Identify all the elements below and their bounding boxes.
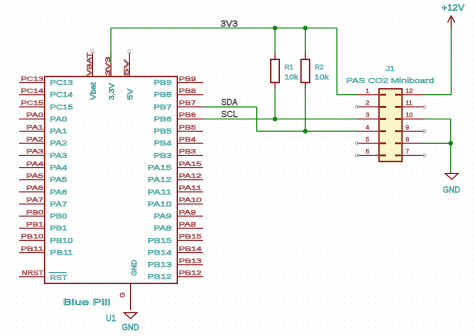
- svg-text:PA11: PA11: [147, 187, 171, 196]
- svg-text:PB11: PB11: [21, 246, 44, 253]
- svg-text:PA9: PA9: [179, 209, 197, 216]
- svg-text:J1: J1: [386, 64, 395, 73]
- svg-text:3V3: 3V3: [221, 18, 238, 28]
- svg-text:4: 4: [366, 124, 370, 131]
- svg-text:PB3: PB3: [154, 151, 172, 160]
- svg-text:8: 8: [406, 137, 410, 144]
- svg-text:PC14: PC14: [50, 90, 73, 99]
- svg-text:PAS CO2 Miniboard: PAS CO2 Miniboard: [346, 76, 434, 85]
- svg-text:PC15: PC15: [50, 102, 73, 111]
- svg-text:PA9: PA9: [154, 212, 172, 221]
- svg-text:RST: RST: [50, 273, 68, 282]
- svg-text:GND: GND: [122, 323, 140, 332]
- svg-text:PA10: PA10: [147, 199, 171, 208]
- svg-text:PA11: PA11: [179, 185, 202, 192]
- svg-text:PC15: PC15: [21, 100, 44, 107]
- svg-text:PB12: PB12: [147, 272, 171, 281]
- svg-text:PA3: PA3: [50, 151, 67, 160]
- svg-text:PB0: PB0: [50, 212, 67, 221]
- svg-text:VBAT: VBAT: [86, 52, 93, 76]
- svg-text:PB0: PB0: [26, 209, 44, 216]
- svg-text:PC14: PC14: [21, 88, 44, 95]
- svg-text:9: 9: [406, 124, 410, 131]
- svg-text:R1: R1: [284, 62, 293, 71]
- svg-text:7: 7: [406, 149, 410, 156]
- svg-text:PA2: PA2: [50, 139, 67, 148]
- svg-text:NRST: NRST: [22, 270, 44, 277]
- svg-text:PB6: PB6: [154, 114, 172, 123]
- svg-text:PB6: PB6: [179, 112, 197, 119]
- svg-text:GND: GND: [129, 260, 138, 276]
- svg-text:SCL: SCL: [221, 109, 238, 119]
- svg-text:10: 10: [406, 112, 414, 119]
- svg-text:PA8: PA8: [179, 222, 197, 229]
- svg-text:PB11: PB11: [50, 248, 73, 257]
- svg-text:Vbat: Vbat: [89, 82, 98, 100]
- svg-text:PB5: PB5: [154, 127, 172, 136]
- svg-text:11: 11: [406, 100, 413, 107]
- svg-text:PB3: PB3: [179, 149, 197, 156]
- svg-text:PB15: PB15: [179, 234, 202, 241]
- svg-text:U1: U1: [106, 313, 116, 323]
- svg-text:PA1: PA1: [26, 124, 44, 131]
- svg-text:5V: 5V: [123, 58, 130, 76]
- svg-text:PA4: PA4: [26, 161, 44, 168]
- svg-text:PB12: PB12: [179, 270, 202, 277]
- svg-text:PB8: PB8: [154, 90, 172, 99]
- svg-text:PA2: PA2: [26, 137, 44, 144]
- svg-text:PA5: PA5: [50, 175, 67, 184]
- svg-text:PA0: PA0: [50, 114, 67, 123]
- svg-text:3.3V: 3.3V: [107, 83, 116, 100]
- svg-text:PB1: PB1: [26, 222, 44, 229]
- svg-text:2: 2: [366, 100, 370, 107]
- svg-text:PB14: PB14: [179, 246, 202, 253]
- svg-text:PB8: PB8: [179, 88, 197, 95]
- svg-text:PB15: PB15: [147, 236, 171, 245]
- svg-text:PA7: PA7: [50, 199, 67, 208]
- svg-text:G: G: [120, 292, 127, 297]
- svg-text:GND: GND: [443, 186, 461, 195]
- svg-text:10k: 10k: [284, 73, 298, 82]
- svg-text:PB10: PB10: [50, 236, 73, 245]
- svg-text:PB4: PB4: [154, 139, 172, 148]
- svg-text:PA15: PA15: [147, 163, 171, 172]
- svg-text:PA5: PA5: [26, 173, 44, 180]
- svg-text:PA15: PA15: [179, 161, 202, 168]
- svg-text:PA1: PA1: [50, 127, 67, 136]
- svg-text:PC13: PC13: [50, 78, 73, 87]
- svg-text:PC13: PC13: [21, 76, 44, 83]
- svg-text:PA6: PA6: [50, 187, 67, 196]
- svg-text:PB14: PB14: [147, 248, 171, 257]
- svg-text:3: 3: [366, 112, 370, 119]
- svg-text:PA12: PA12: [179, 173, 202, 180]
- svg-text:PB1: PB1: [50, 224, 67, 233]
- svg-text:PB5: PB5: [179, 124, 197, 131]
- svg-text:PA7: PA7: [26, 197, 44, 204]
- svg-text:+12V: +12V: [442, 4, 465, 13]
- svg-text:PB7: PB7: [179, 100, 197, 107]
- svg-text:5V: 5V: [125, 88, 134, 100]
- svg-text:SDA: SDA: [221, 97, 238, 107]
- svg-text:PA6: PA6: [26, 185, 44, 192]
- svg-text:12: 12: [406, 88, 414, 95]
- svg-text:PA10: PA10: [179, 197, 202, 204]
- svg-text:PA12: PA12: [147, 175, 171, 184]
- svg-text:PB9: PB9: [154, 78, 172, 87]
- svg-text:5: 5: [366, 137, 370, 144]
- svg-text:PB13: PB13: [179, 258, 202, 265]
- svg-text:PB13: PB13: [147, 260, 171, 269]
- svg-text:Blue Pill: Blue Pill: [63, 297, 110, 307]
- svg-text:10k: 10k: [315, 73, 329, 82]
- svg-text:R2: R2: [315, 62, 324, 71]
- svg-text:PA8: PA8: [154, 224, 172, 233]
- svg-text:PB4: PB4: [179, 137, 197, 144]
- svg-text:1: 1: [366, 88, 370, 95]
- svg-text:PA4: PA4: [50, 163, 67, 172]
- svg-text:PA0: PA0: [26, 112, 44, 119]
- svg-text:PB9: PB9: [179, 76, 197, 83]
- svg-text:PB7: PB7: [154, 102, 172, 111]
- svg-text:PA3: PA3: [26, 149, 44, 156]
- svg-text:PB10: PB10: [21, 234, 44, 241]
- svg-text:6: 6: [366, 149, 370, 156]
